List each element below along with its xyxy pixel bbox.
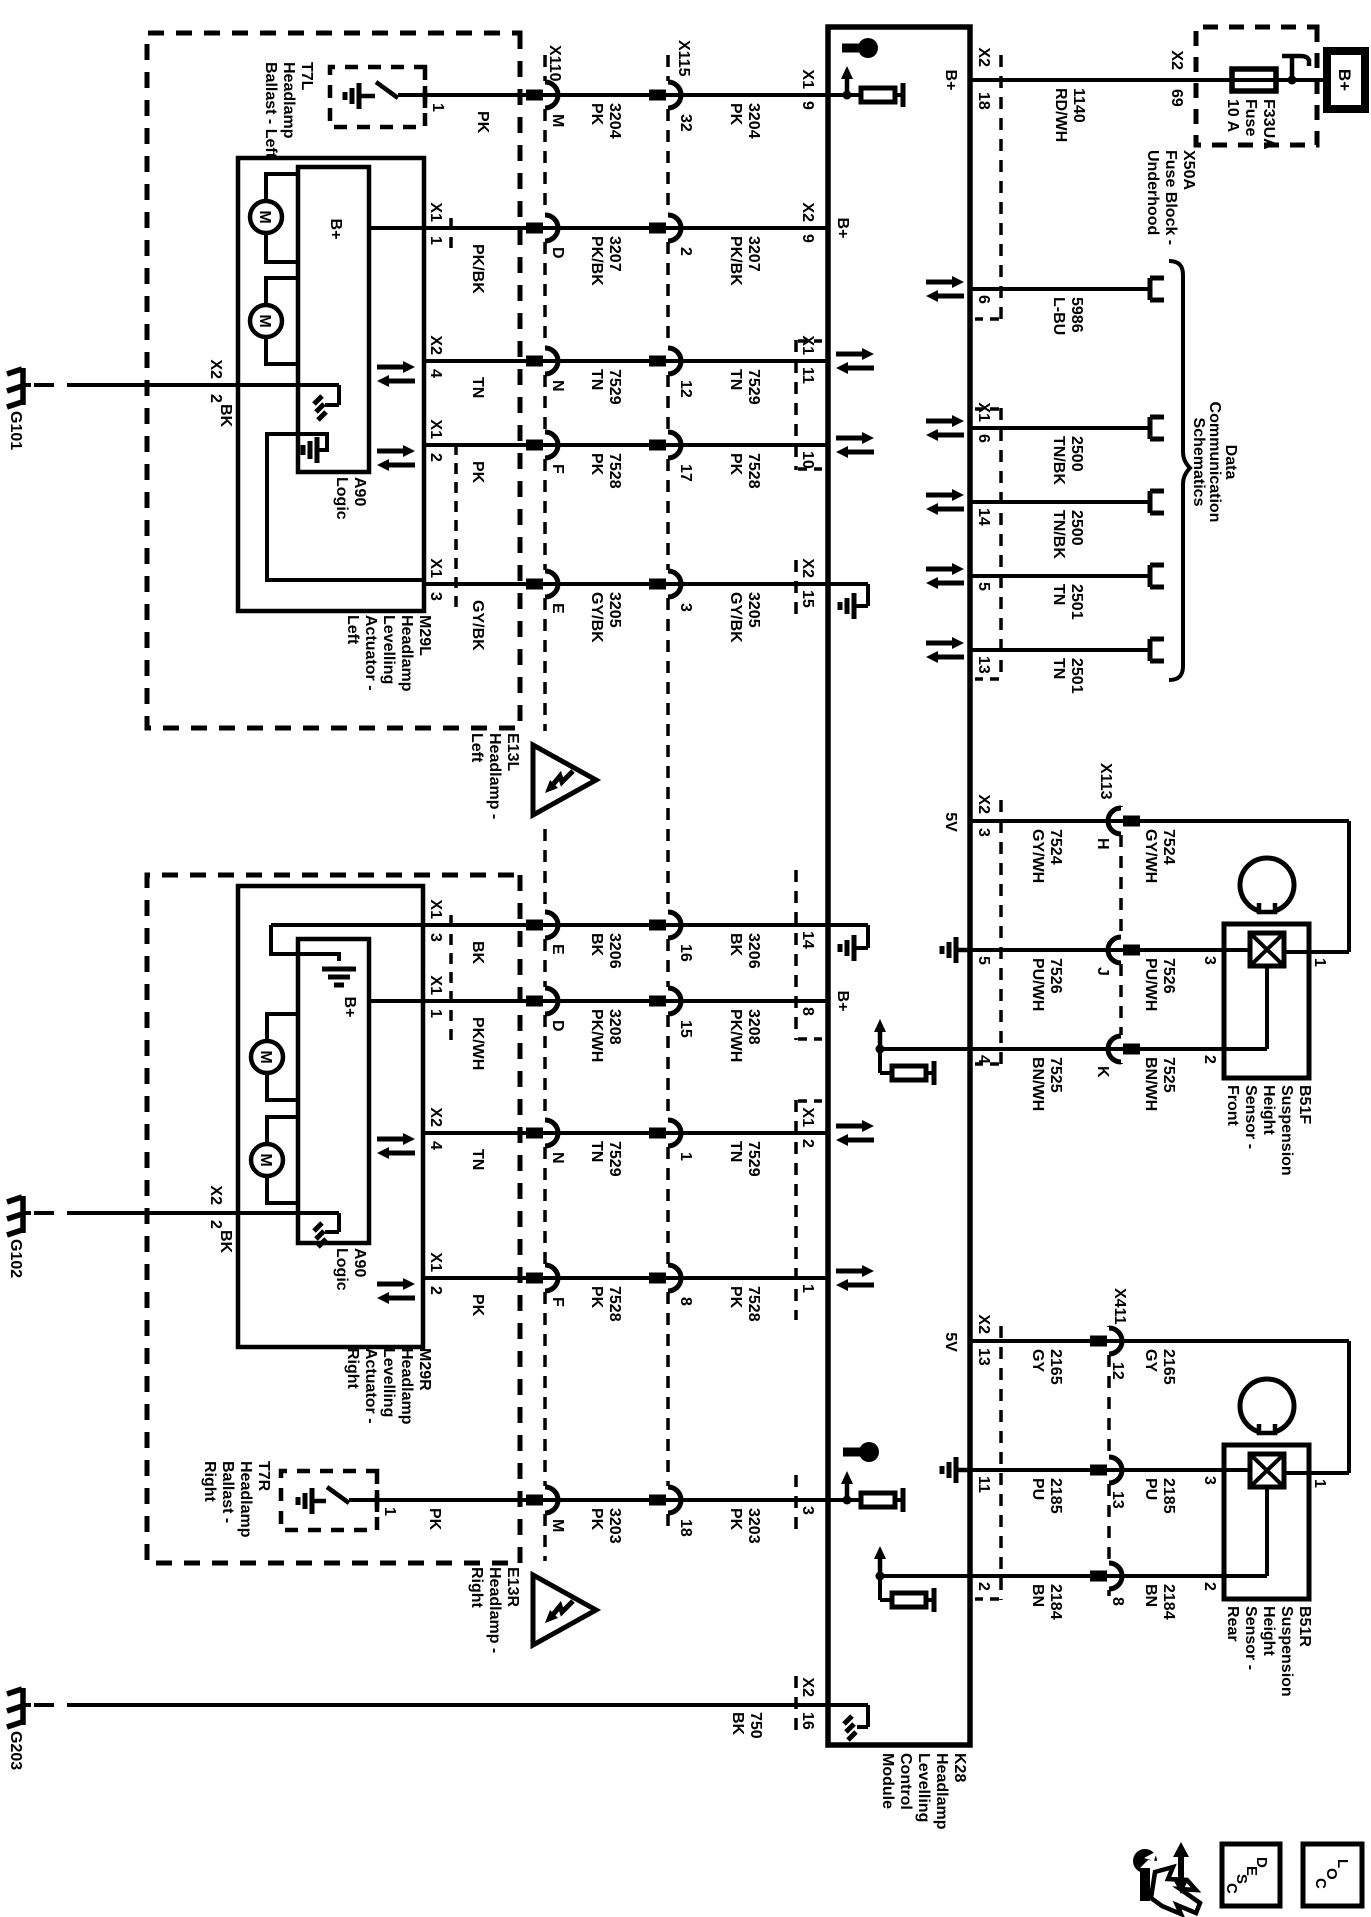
M29R earth ground	[322, 967, 356, 972]
svg-text:5V: 5V	[942, 812, 959, 832]
wire 3207 PK/BK module pin 9	[369, 226, 828, 230]
svg-text:BK: BK	[217, 1230, 234, 1254]
svg-text:8: 8	[677, 1297, 694, 1306]
wire 5V top rail to sensor pin 1	[1347, 821, 1351, 952]
svg-text:M: M	[549, 1519, 566, 1532]
wire 2501 TN pin 13 to data bus	[970, 648, 1150, 652]
module pin 15 labels	[799, 558, 816, 607]
svg-text:2: 2	[799, 1139, 816, 1148]
X115 bump terminal 15 wire 3208	[668, 988, 681, 1014]
wire label 2501 TN	[1050, 658, 1085, 694]
module internal serial arrows pin 2	[836, 1124, 864, 1129]
wire 2500 TN/BK pin 6 to data bus	[970, 426, 1150, 430]
X113 bump terminal K	[1108, 1036, 1121, 1062]
svg-text:13: 13	[975, 656, 992, 674]
wire 7528 PK module pin 10	[424, 443, 828, 447]
module internal pullup at pin 4	[880, 1047, 970, 1051]
svg-text:3: 3	[799, 1506, 816, 1515]
svg-text:4: 4	[427, 1141, 444, 1150]
svg-text:X2: X2	[207, 1185, 224, 1205]
svg-text:X1: X1	[799, 1107, 816, 1127]
wire label 7529 TN upper	[727, 369, 762, 405]
svg-text:Ballast -: Ballast -	[219, 1461, 236, 1523]
module pin 13 labels	[975, 1314, 992, 1365]
svg-text:15: 15	[677, 1020, 694, 1038]
module internal ground at pin 16	[828, 1703, 868, 1707]
svg-text:7528: 7528	[606, 453, 623, 489]
wire 750 BK pin 16 to G203	[87, 1703, 828, 1707]
svg-text:BK: BK	[588, 933, 605, 957]
svg-text:X1: X1	[427, 899, 444, 919]
wire label 3207 PK/BK upper	[727, 236, 762, 286]
module pin 11 labels	[799, 335, 816, 384]
svg-text:X2: X2	[427, 1107, 444, 1127]
svg-text:Levelling: Levelling	[380, 1348, 397, 1417]
wire label 7528 PK upper	[727, 453, 762, 489]
module internal lamp driver at pin 9	[828, 93, 861, 97]
module pin 10 labels	[799, 451, 816, 469]
svg-text:X110: X110	[546, 45, 563, 82]
svg-text:10 A: 10 A	[1224, 99, 1241, 133]
A90 Logic label left	[333, 477, 368, 520]
M29R actuator outer box	[238, 886, 423, 1347]
svg-text:Fuse: Fuse	[1242, 99, 1259, 136]
svg-text:Actuator -: Actuator -	[362, 1348, 379, 1424]
svg-text:BN/WH: BN/WH	[1142, 1057, 1159, 1111]
svg-text:TN: TN	[727, 1141, 744, 1162]
svg-text:C: C	[1223, 1883, 1240, 1894]
wire label 3208 PK/WH lower	[588, 1009, 623, 1062]
wire label 7529 TN upper	[727, 1141, 762, 1177]
svg-text:1: 1	[427, 1009, 444, 1018]
M29R serial arrows pin 2	[377, 1282, 405, 1287]
svg-text:1: 1	[381, 1507, 398, 1516]
wire 2184 BN pin 2	[970, 1574, 1267, 1578]
wire 2501 TN pin 5 to data bus	[970, 574, 1150, 578]
svg-text:PU/WH: PU/WH	[1142, 958, 1159, 1011]
M29R serial arrows pin 4	[377, 1137, 405, 1142]
svg-text:3: 3	[1201, 956, 1218, 965]
M29L ground loop to pin X1-3	[267, 434, 424, 580]
svg-text:PK/WH: PK/WH	[727, 1009, 744, 1062]
B+ box	[1327, 51, 1365, 109]
svg-text:5: 5	[975, 582, 992, 591]
svg-text:2184: 2184	[1047, 1584, 1064, 1620]
T7L label	[262, 62, 315, 159]
X110 bump terminal D wire 3207	[545, 215, 558, 241]
svg-text:X2: X2	[975, 47, 992, 67]
T7R terminal 1 tick	[375, 1490, 380, 1512]
svg-text:2184: 2184	[1160, 1584, 1177, 1620]
svg-text:3: 3	[427, 933, 444, 942]
svg-text:X115: X115	[675, 40, 692, 77]
svg-text:B+: B+	[834, 991, 851, 1012]
svg-text:K28: K28	[951, 1753, 968, 1782]
svg-text:Logic: Logic	[333, 1248, 350, 1291]
sensor B51F box	[1224, 924, 1309, 1078]
svg-text:3203: 3203	[606, 1508, 623, 1544]
M29L A90 logic box	[298, 167, 369, 472]
M29R pin X1 1 labels	[427, 975, 444, 1018]
svg-text:2: 2	[427, 453, 444, 462]
svg-text:GY/BK: GY/BK	[469, 600, 486, 651]
M29L chassis crowfoot at G101 wire	[337, 385, 341, 405]
wire label 2184 BN upper	[1142, 1584, 1177, 1620]
svg-text:BK: BK	[469, 941, 486, 965]
svg-text:Rear: Rear	[1224, 1606, 1241, 1642]
svg-text:Logic: Logic	[333, 477, 350, 520]
module pin 13 labels	[975, 656, 992, 674]
svg-text:2: 2	[207, 1220, 224, 1229]
module internal serial data arrows pin 6	[926, 419, 954, 424]
module connector X2 dashed line bottom (pin 16)	[794, 1676, 798, 1731]
wire label 3208 PK/WH upper	[727, 1009, 762, 1062]
svg-text:Headlamp -: Headlamp -	[486, 733, 503, 819]
M29R pin X2 4 labels	[427, 1107, 444, 1150]
module K28 Headlamp Leveling Control Module box	[828, 27, 970, 1745]
wire label 2165 GY upper	[1142, 1349, 1177, 1385]
sensor B51R label	[1224, 1606, 1313, 1697]
wire 5986 L-BU pin 6 to data bus	[970, 287, 1150, 291]
module pin X2 18 labels	[975, 47, 992, 109]
module connector dashed line bottom (pins 14,8)	[794, 870, 798, 1040]
wire label 7529 TN lower	[588, 369, 623, 405]
X110 bump terminal E wire 3205	[545, 571, 558, 597]
svg-text:X2: X2	[799, 558, 816, 578]
svg-text:PK: PK	[469, 461, 486, 484]
svg-text:7525: 7525	[1160, 1057, 1177, 1093]
wire label 1140 RD/WH	[1052, 88, 1087, 142]
module K28 label	[879, 1753, 968, 1830]
svg-text:Height: Height	[1260, 1085, 1277, 1135]
module pin 6 labels	[975, 402, 992, 443]
X115 bump terminal 3 wire 3205	[668, 571, 681, 597]
svg-text:E13L: E13L	[504, 733, 521, 771]
svg-text:Headlamp: Headlamp	[237, 1461, 254, 1538]
sensor B51F pin2 internal path	[1265, 966, 1269, 1049]
svg-text:PU: PU	[1029, 1478, 1046, 1500]
connector X110 dashed line	[543, 55, 547, 81]
svg-text:X1: X1	[427, 202, 444, 222]
svg-text:PK/BK: PK/BK	[469, 244, 486, 294]
M29L motor 2	[250, 305, 282, 337]
M29L pin X1 1 labels	[427, 202, 444, 245]
sensor B51R wiper circle	[1240, 1379, 1294, 1433]
svg-text:16: 16	[677, 944, 694, 962]
svg-text:3206: 3206	[745, 933, 762, 969]
svg-text:X1: X1	[799, 69, 816, 89]
svg-text:5: 5	[975, 956, 992, 965]
M29L label	[344, 615, 433, 692]
svg-text:T7R: T7R	[255, 1461, 272, 1492]
DESC box	[1222, 1844, 1280, 1906]
M29R pin X2 2 labels at box edge	[207, 1185, 224, 1229]
M29L pin X2 2 labels at box edge	[207, 359, 224, 403]
svg-text:X2: X2	[975, 1314, 992, 1334]
svg-text:BN: BN	[1029, 1584, 1046, 1607]
svg-text:2: 2	[677, 247, 694, 256]
X110 bump terminal N wire 7529	[545, 348, 558, 374]
wire label 2165 GY lower	[1029, 1349, 1064, 1385]
T7L ballast dashed box	[330, 67, 425, 127]
svg-text:M: M	[256, 314, 273, 327]
module pin 1 labels	[799, 1284, 816, 1293]
svg-text:5986: 5986	[1068, 297, 1085, 333]
svg-text:14: 14	[799, 931, 816, 949]
wire label 3203 PK lower	[588, 1508, 623, 1544]
svg-text:12: 12	[677, 380, 694, 398]
svg-text:TN: TN	[469, 1149, 486, 1170]
wire label 7526 PU/WH lower	[1029, 958, 1064, 1011]
svg-text:2165: 2165	[1160, 1349, 1177, 1385]
module connector X2 dashed line (pins 3,5,4)	[999, 800, 1003, 1065]
svg-text:PK: PK	[588, 453, 605, 476]
svg-text:7525: 7525	[1047, 1057, 1064, 1093]
goalpost off-page connector for pin 14	[1148, 491, 1153, 513]
wire label 7529 TN lower	[588, 1141, 623, 1177]
wire label 2501 TN	[1050, 584, 1085, 620]
module internal serial arrows pin 10	[836, 436, 864, 441]
wire label 3204 PK upper	[727, 103, 762, 139]
svg-text:7529: 7529	[606, 1141, 623, 1177]
svg-text:X2: X2	[799, 1677, 816, 1697]
svg-text:X2: X2	[799, 202, 816, 222]
X113 bump terminal H	[1108, 808, 1121, 834]
module pin 5 labels	[975, 582, 992, 591]
wire 3206 BK module pin 14	[271, 923, 828, 927]
svg-text:X1: X1	[975, 402, 992, 422]
svg-text:7529: 7529	[745, 369, 762, 405]
svg-text:PK: PK	[727, 453, 744, 476]
module internal ground at pin 11	[956, 1468, 970, 1473]
X110 bump terminal N wire 7529	[545, 1120, 558, 1146]
svg-text:F: F	[549, 464, 566, 474]
svg-text:X2: X2	[427, 335, 444, 355]
module pin 9 labels	[799, 69, 816, 110]
svg-text:TN/BK: TN/BK	[1050, 436, 1067, 485]
svg-text:3208: 3208	[745, 1009, 762, 1045]
svg-text:M29R: M29R	[416, 1348, 433, 1391]
service icon glove outline	[1151, 1867, 1200, 1914]
svg-text:7526: 7526	[1160, 958, 1177, 994]
svg-text:750: 750	[747, 1712, 764, 1739]
fuse F33UA value label	[1224, 99, 1277, 150]
E13L headlamp left dashed box	[147, 33, 520, 728]
module connector dashed line bottom (pin 3)	[794, 1475, 798, 1535]
svg-text:Underhood: Underhood	[1144, 150, 1161, 235]
wire B+ feed 1140 RD/WH from B+ box to module pin X2-18	[970, 78, 1327, 82]
svg-text:D: D	[549, 247, 566, 259]
svg-text:GY/BK: GY/BK	[588, 592, 605, 643]
T7R ballast dashed box	[281, 1471, 377, 1530]
wire G102 dashed tail	[31, 1211, 87, 1215]
wire 7529 TN module pin 2	[424, 1131, 828, 1135]
sensor pin numbers front	[1201, 956, 1328, 1064]
X115 bump terminal 8 wire 7528	[668, 1265, 681, 1291]
module connector dashed line bottom (pins 2,1)	[794, 1100, 798, 1320]
svg-text:Right: Right	[468, 1567, 485, 1609]
wire label 7528 PK upper	[727, 1286, 762, 1322]
module pin 5 labels	[975, 956, 992, 965]
svg-text:Suspension: Suspension	[1278, 1606, 1295, 1697]
svg-text:PK: PK	[588, 103, 605, 126]
svg-text:Actuator -: Actuator -	[362, 615, 379, 691]
connector X113 dashed line	[1119, 806, 1123, 807]
svg-text:Headlamp: Headlamp	[398, 1348, 415, 1425]
sensor B51R pin2 internal path	[1265, 1487, 1269, 1576]
E13R label	[468, 1567, 521, 1653]
svg-text:2: 2	[1201, 1582, 1218, 1591]
svg-text:17: 17	[677, 464, 694, 482]
svg-text:3: 3	[427, 592, 444, 601]
wire label 3203 PK upper	[727, 1508, 762, 1544]
svg-text:2: 2	[427, 1286, 444, 1295]
svg-text:10: 10	[799, 451, 816, 469]
svg-text:Levelling: Levelling	[380, 615, 397, 684]
svg-text:PK: PK	[588, 1508, 605, 1531]
wire label 750 BK	[729, 1712, 764, 1739]
svg-text:M: M	[549, 114, 566, 127]
svg-text:T7L: T7L	[298, 62, 315, 91]
svg-text:Module: Module	[879, 1753, 896, 1809]
wire 750 BK dashed tail	[31, 1703, 87, 1707]
svg-text:X50A: X50A	[1180, 150, 1197, 190]
M29L pin X1 3 labels	[427, 558, 444, 601]
M29L earth ground	[315, 437, 320, 463]
module connector dashed line bottom (pin 15)	[794, 560, 798, 615]
svg-text:B+: B+	[942, 70, 959, 91]
svg-text:TN: TN	[1050, 658, 1067, 679]
wire label 3204 PK lower	[588, 103, 623, 139]
wire label 7526 PU/WH upper	[1142, 958, 1177, 1011]
module internal serial data arrows pin 14	[926, 493, 954, 498]
svg-text:32: 32	[677, 114, 694, 132]
ground G101	[23, 383, 31, 387]
svg-text:3205: 3205	[745, 592, 762, 628]
wire label 3207 PK/BK lower	[588, 236, 623, 286]
M29R pin X1-3 path to earth ground	[271, 925, 339, 961]
svg-text:3204: 3204	[745, 103, 762, 139]
X411 bump terminal 8	[1109, 1563, 1122, 1589]
svg-text:Right: Right	[201, 1461, 218, 1503]
svg-text:Fuse Block -: Fuse Block -	[1162, 150, 1179, 245]
svg-text:3204: 3204	[606, 103, 623, 139]
module connector dashed line bottom left (pins 11,10)	[794, 340, 798, 470]
M29L pin X2 4 labels	[427, 335, 444, 378]
svg-text:BN: BN	[1142, 1584, 1159, 1607]
svg-text:Headlamp -: Headlamp -	[486, 1567, 503, 1653]
module internal lamp driver at pin 3	[828, 1498, 861, 1502]
svg-text:B51F: B51F	[1296, 1085, 1313, 1124]
svg-text:3205: 3205	[606, 592, 623, 628]
wire label 7528 PK lower	[588, 453, 623, 489]
svg-text:18: 18	[677, 1519, 694, 1537]
module connector X1 dashed line (pins 6,14,5,13)	[999, 408, 1003, 680]
wire 3208 PK/WH module pin 8	[369, 999, 828, 1003]
M29L pin X1 2 labels	[427, 419, 444, 462]
svg-text:GY: GY	[1029, 1349, 1046, 1372]
connector X411 dashed line	[1107, 1326, 1111, 1327]
T7R internal switch to ground	[349, 1498, 377, 1502]
svg-text:X1: X1	[427, 558, 444, 578]
svg-text:B+: B+	[327, 219, 344, 240]
sensor B51R transducer X-box	[1250, 1454, 1284, 1487]
svg-text:13: 13	[1109, 1491, 1126, 1509]
svg-text:PK/WH: PK/WH	[469, 1017, 486, 1070]
X110 bump terminal F wire 7528	[545, 1265, 558, 1291]
wire 2165 GY pin 13 5V	[970, 1339, 1349, 1343]
wire 3205 GY/BK module pin 15	[424, 582, 828, 586]
sensor B51F label	[1224, 1085, 1313, 1176]
wire 5V top rail to rear sensor pin 1	[1347, 1341, 1351, 1473]
svg-text:9: 9	[799, 101, 816, 110]
svg-text:E: E	[549, 603, 566, 614]
wire label 2185 PU lower	[1029, 1478, 1064, 1514]
M29R label	[344, 1348, 433, 1425]
svg-text:1140: 1140	[1070, 88, 1087, 123]
svg-text:Sensor -: Sensor -	[1242, 1085, 1259, 1149]
wire G101 BK into A90	[87, 383, 339, 387]
svg-text:Suspension: Suspension	[1278, 1085, 1295, 1176]
svg-text:16: 16	[799, 1712, 816, 1730]
svg-text:7529: 7529	[745, 1141, 762, 1177]
svg-text:8: 8	[799, 1007, 816, 1016]
X115 bump terminal 18 wire 3203	[668, 1487, 681, 1513]
service icon arrow	[1178, 1853, 1184, 1883]
X110 bump terminal M wire 3204	[545, 82, 558, 108]
svg-text:7528: 7528	[606, 1286, 623, 1322]
svg-text:6: 6	[975, 295, 992, 304]
svg-text:PK: PK	[474, 111, 491, 134]
svg-text:2185: 2185	[1160, 1478, 1177, 1514]
svg-text:Levelling: Levelling	[915, 1753, 932, 1822]
M29L serial arrows pin 4	[377, 365, 405, 370]
module pin X2 3 labels	[975, 794, 992, 837]
svg-text:TN: TN	[588, 1141, 605, 1162]
M29L actuator connector dashes X1-1	[449, 218, 453, 248]
T7L internal switch to ground	[398, 93, 425, 97]
wire 7525 BN/WH pin 4	[970, 1047, 1267, 1051]
wire label 2500 TN/BK	[1050, 510, 1085, 559]
module internal pullup at pin 2	[880, 1574, 970, 1578]
ground G203	[23, 1703, 31, 1707]
svg-text:Right: Right	[344, 1348, 361, 1390]
svg-text:1: 1	[1311, 958, 1328, 967]
svg-text:3208: 3208	[606, 1009, 623, 1045]
svg-text:BK: BK	[217, 404, 234, 428]
svg-text:7528: 7528	[745, 1286, 762, 1322]
svg-text:PK: PK	[469, 1294, 486, 1317]
svg-text:PK: PK	[727, 1508, 744, 1531]
wire 7528 PK module pin 1	[424, 1276, 828, 1280]
service icon wrench	[1140, 1868, 1150, 1901]
svg-text:A90: A90	[351, 1248, 368, 1277]
svg-text:1: 1	[1311, 1479, 1328, 1488]
wire 3207 actuator segment	[369, 226, 424, 230]
svg-text:7524: 7524	[1160, 829, 1177, 865]
X411 bump terminal 12	[1109, 1328, 1122, 1354]
svg-text:N: N	[549, 380, 566, 392]
svg-text:Front: Front	[1224, 1085, 1241, 1127]
svg-text:9: 9	[799, 234, 816, 243]
svg-text:2501: 2501	[1068, 584, 1085, 620]
svg-text:3207: 3207	[745, 236, 762, 272]
sensor B51F transducer X-box	[1250, 933, 1284, 966]
svg-text:TN/BK: TN/BK	[1050, 510, 1067, 559]
wire 2185 PU pin 11	[970, 1468, 1224, 1472]
wire label 2185 PU upper	[1142, 1478, 1177, 1514]
wire label 2500 TN/BK	[1050, 436, 1085, 485]
